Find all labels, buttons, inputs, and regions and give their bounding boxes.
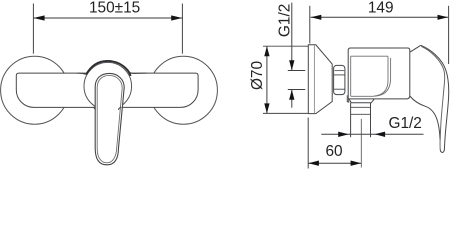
outlet pipe right edge <box>370 103 372 137</box>
fillet body bottom to lever left <box>92 107 95 110</box>
svg-text:G1/2: G1/2 <box>276 4 293 37</box>
dimension 149 arrowhead left <box>311 15 322 20</box>
lever handle outer contour (front view) <box>95 73 124 164</box>
dimension Ø70 arrowhead down <box>264 103 269 113</box>
handle outer contour <box>421 45 449 152</box>
dimension 150±15 arrowhead left <box>34 15 45 20</box>
valve body block (side view) <box>348 48 410 103</box>
dimension 150±15 arrowhead right <box>171 15 182 20</box>
lever handle inner contour line <box>97 75 122 162</box>
outlet pipe ring lower <box>351 113 371 115</box>
lever cap arc <box>86 61 130 76</box>
escutcheon base plate front line <box>313 45 315 113</box>
nut facet line lower <box>334 88 345 90</box>
dimension 149 extension line left <box>309 6 311 44</box>
outlet collar trapezoid <box>349 99 374 103</box>
dimension 150±15 extension line left <box>32 4 34 54</box>
outlet pipe ring upper <box>351 106 371 108</box>
leader arrowhead G1/2 bottom (right) <box>338 132 349 137</box>
svg-text:Ø70: Ø70 <box>249 61 266 90</box>
dimension 149 extension line right <box>448 6 450 64</box>
leader line G1/2 bottom right <box>321 133 423 135</box>
leader arrowhead G1/2 bottom (left) <box>375 132 386 137</box>
dimension 149 arrowhead right <box>438 15 449 20</box>
svg-text:60: 60 <box>325 143 342 160</box>
svg-text:149: 149 <box>368 0 394 17</box>
handle top slant (side view) <box>410 45 421 52</box>
fillet body top to dome right <box>129 72 147 74</box>
cartridge dome circle <box>84 62 132 110</box>
right escutcheon circle <box>149 56 217 124</box>
cartridge bowl top line <box>351 55 388 57</box>
outlet centerline <box>360 119 362 168</box>
dimension 150±15 line <box>33 17 182 19</box>
thread arrow up from below <box>291 90 293 108</box>
mixer body bar (front view) <box>16 73 198 107</box>
leader arrowhead G1/2 top (down) <box>289 60 294 70</box>
dimension 60 arrowhead right <box>351 161 362 166</box>
fillet body bottom to lever right <box>119 107 122 110</box>
wall escutcheon outline (side view) <box>308 45 332 114</box>
thread tick upper <box>288 70 305 72</box>
cartridge bowl right outer line <box>374 58 391 96</box>
body bottom edge <box>348 96 410 99</box>
fillet body top to dome left <box>78 73 88 74</box>
dimension Ø70 line <box>266 46 268 113</box>
handle inner contour <box>421 46 444 149</box>
nut facet line upper <box>334 74 345 76</box>
dimension 60 extension line left <box>307 118 309 169</box>
outlet pipe left edge <box>350 103 352 137</box>
dimension 60 line <box>308 162 361 164</box>
dimension Ø70 extension bottom <box>263 112 308 114</box>
hex connection nut <box>334 65 345 94</box>
washer edge below nut <box>347 95 349 102</box>
dimension Ø70 arrowhead up <box>264 46 269 56</box>
dimension Ø70 extension top <box>263 45 308 47</box>
svg-text:150±15: 150±15 <box>89 0 140 17</box>
dimension 60 arrowhead left <box>308 161 319 166</box>
svg-text:G1/2: G1/2 <box>389 115 422 132</box>
dimension 150±15 extension line right <box>181 4 183 54</box>
thread tick lower <box>288 89 305 91</box>
nut chamfer line top <box>335 70 345 72</box>
handle lower sweep from body <box>410 96 440 140</box>
dimension 149 line <box>311 16 448 18</box>
cartridge bowl left line <box>350 56 352 96</box>
cartridge bowl right inner line <box>374 56 388 96</box>
leader line G1/2 top <box>291 3 293 70</box>
cartridge bowl bottom line <box>351 95 374 97</box>
left escutcheon circle <box>1 56 69 124</box>
